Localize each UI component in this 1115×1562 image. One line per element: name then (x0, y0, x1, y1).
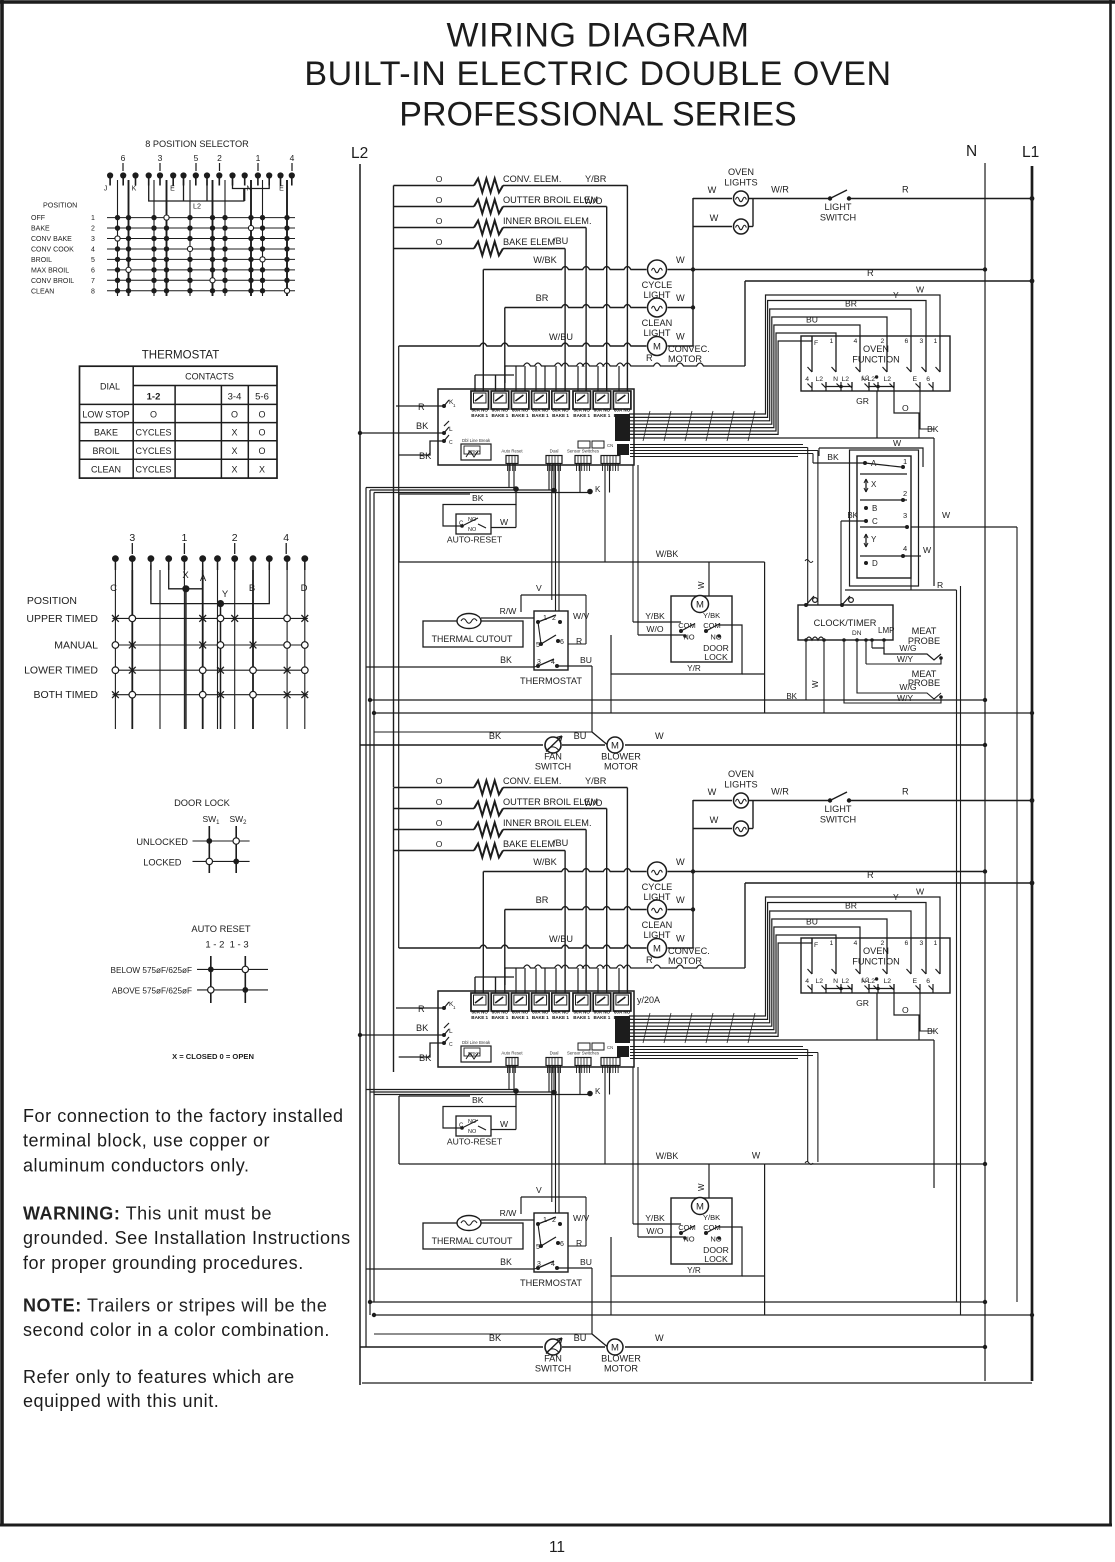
svg-text:LOWER TIMED: LOWER TIMED (24, 665, 98, 677)
svg-text:1: 1 (903, 457, 907, 466)
timer Y bus node (151, 565, 269, 604)
wire W contact box top (819, 448, 923, 467)
thermostat table grid (80, 366, 278, 478)
svg-text:8: 8 (91, 288, 95, 295)
svg-text:LMP: LMP (878, 626, 894, 635)
page border frame bottom (0, 1524, 1112, 1527)
svg-text:1: 1 (181, 532, 187, 544)
svg-text:4: 4 (91, 247, 95, 254)
svg-text:aluminum conductors only.: aluminum conductors only. (23, 1156, 250, 1176)
svg-text:DIAL: DIAL (100, 382, 120, 392)
svg-text:y/20A: y/20A (637, 995, 660, 1005)
selector terminal dots row (107, 172, 295, 185)
selector column wires (118, 180, 288, 296)
svg-text:N: N (966, 143, 977, 160)
svg-text:3: 3 (158, 153, 163, 163)
wire clock lamp feeds (856, 640, 858, 658)
wire W door lock return lower (765, 1163, 985, 1165)
svg-text:1 - 2 1 - 3: 1 - 2 1 - 3 (205, 940, 248, 951)
svg-text:MAX BROIL: MAX BROIL (31, 267, 69, 274)
contact B (864, 506, 868, 510)
bottom boundary wire (362, 1382, 1032, 1384)
svg-text:W: W (942, 510, 951, 520)
svg-text:AUTO RESET: AUTO RESET (191, 924, 251, 934)
selector terminal letters (104, 186, 284, 193)
svg-text:BROIL: BROIL (92, 446, 119, 456)
svg-text:POSITION: POSITION (43, 201, 77, 210)
timer column wires (115, 570, 304, 729)
svg-text:BK: BK (847, 511, 858, 520)
svg-text:6: 6 (91, 267, 95, 274)
wire left riser bundle (365, 488, 367, 1348)
page border frame left (0, 0, 4, 1526)
svg-text:CYCLES: CYCLES (135, 446, 171, 456)
svg-text:B: B (872, 504, 877, 513)
selector L2 bus (149, 180, 244, 201)
wire L2 rail (359, 164, 361, 1385)
note paragraph WARNING (23, 1204, 351, 1273)
svg-text:BK: BK (786, 692, 797, 701)
auto reset switch columns (210, 956, 212, 1003)
svg-text:for proper grounding procedure: for proper grounding procedures. (23, 1253, 304, 1273)
wire L1 rail (1031, 166, 1034, 1381)
svg-text:grounded. See Installation In: grounded. See Installation Instructions (23, 1228, 351, 1248)
svg-text:X: X (182, 570, 189, 581)
svg-text:CLEAN: CLEAN (31, 288, 54, 295)
svg-text:D: D (301, 583, 308, 594)
svg-text:W/Y: W/Y (897, 654, 913, 664)
wire bundle to clock timer (807, 560, 809, 605)
wire right risers to lower section (956, 590, 958, 1302)
svg-text:2: 2 (91, 226, 95, 233)
svg-text:CONV COOK: CONV COOK (31, 247, 74, 254)
svg-text:CYCLES: CYCLES (135, 464, 171, 474)
svg-text:MANUAL: MANUAL (54, 640, 98, 652)
svg-text:CYCLES: CYCLES (135, 428, 171, 438)
contact A (863, 461, 867, 465)
svg-text:O: O (258, 410, 265, 420)
contact C (864, 519, 868, 523)
contact Y coil (865, 534, 867, 547)
timer row wires with X/O marks (24, 613, 308, 701)
svg-text:O: O (231, 410, 238, 420)
svg-text:BAKE: BAKE (94, 428, 118, 438)
timer selector terminal numbers (129, 532, 289, 554)
svg-text:X: X (231, 446, 237, 456)
door lock switch columns (208, 826, 210, 873)
svg-text:BAKE: BAKE (31, 226, 50, 233)
svg-text:CONTACTS: CONTACTS (185, 372, 234, 382)
svg-text:WIRING DIAGRAM: WIRING DIAGRAM (446, 17, 749, 55)
svg-text:X: X (231, 464, 237, 474)
svg-text:UPPER TIMED: UPPER TIMED (26, 613, 98, 625)
wire clock W down (823, 640, 825, 713)
page border frame right (1109, 0, 1112, 1526)
svg-text:UNLOCKED: UNLOCKED (136, 837, 188, 847)
svg-text:W: W (893, 438, 902, 448)
timer X bus node (169, 565, 203, 589)
svg-text:4: 4 (290, 153, 295, 163)
thermostat table text (82, 372, 269, 475)
svg-text:X = CLOSED 0 = OPEN: X = CLOSED 0 = OPEN (172, 1052, 254, 1061)
svg-text:POSITION: POSITION (27, 595, 77, 607)
svg-text:J: J (104, 186, 108, 193)
svg-text:BROIL: BROIL (31, 257, 52, 264)
svg-text:LOCKED: LOCKED (143, 858, 182, 868)
svg-text:WARNING: This unit must be: WARNING: This unit must be (23, 1204, 272, 1224)
svg-text:L1: L1 (1022, 144, 1039, 161)
clock timer coil (806, 637, 824, 640)
svg-text:1: 1 (91, 215, 95, 222)
svg-text:MEAT: MEAT (912, 626, 937, 636)
svg-text:5: 5 (194, 153, 199, 163)
svg-text:R: R (937, 580, 943, 590)
svg-text:8 POSITION SELECTOR: 8 POSITION SELECTOR (145, 139, 249, 149)
svg-text:Y: Y (871, 535, 877, 544)
svg-text:X: X (231, 428, 237, 438)
clock timer bottom terminals (842, 638, 846, 642)
timer selector terminal dots (112, 555, 308, 570)
wire outer box left spanning (398, 346, 400, 948)
svg-text:CONV BAKE: CONV BAKE (31, 236, 72, 243)
svg-text:ABOVE 575øF/625øF: ABOVE 575øF/625øF (112, 987, 192, 996)
clock timer top switches (804, 603, 808, 607)
wire R contact box down (845, 589, 957, 591)
svg-text:3: 3 (129, 532, 135, 544)
svg-text:BUILT-IN ELECTRIC DOUBLE OVEN: BUILT-IN ELECTRIC DOUBLE OVEN (304, 55, 891, 93)
upper oven section (358, 167, 1035, 772)
svg-text:2: 2 (232, 532, 238, 544)
svg-text:D: D (872, 559, 878, 568)
contact box A-D (850, 450, 919, 586)
note paragraph refer (23, 1367, 295, 1411)
svg-text:4: 4 (283, 532, 289, 544)
svg-text:Refer only to features which a: Refer only to features which are (23, 1367, 295, 1387)
svg-text:L2: L2 (193, 202, 201, 211)
svg-text:LOW STOP: LOW STOP (82, 410, 129, 420)
selector N bracket (233, 180, 270, 189)
svg-text:CLOCK/TIMER: CLOCK/TIMER (814, 618, 877, 628)
svg-text:4: 4 (903, 544, 907, 553)
note paragraph NOTE (23, 1296, 330, 1341)
svg-text:BK: BK (827, 452, 839, 462)
svg-text:CLEAN: CLEAN (91, 464, 121, 474)
svg-text:THERMOSTAT: THERMOSTAT (142, 350, 220, 362)
svg-text:BOTH TIMED: BOTH TIMED (33, 689, 98, 701)
svg-text:3-4: 3-4 (228, 392, 242, 403)
svg-text:C: C (110, 583, 117, 594)
svg-text:Y: Y (222, 589, 229, 600)
svg-text:OFF: OFF (31, 215, 45, 222)
svg-text:7: 7 (91, 278, 95, 285)
svg-text:5: 5 (91, 257, 95, 264)
wire BK to contact A (813, 462, 865, 464)
svg-text:W/Y: W/Y (897, 693, 913, 703)
clock timer box (798, 605, 893, 640)
svg-text:O: O (258, 428, 265, 438)
svg-text:C: C (872, 517, 878, 526)
lower oven section (duplicate of upper) (358, 769, 1035, 1374)
wire W riser right (1016, 527, 1018, 1302)
svg-text:CONV BROIL: CONV BROIL (31, 278, 74, 285)
svg-text:3: 3 (903, 511, 907, 520)
svg-text:W: W (923, 545, 932, 555)
contact D (864, 561, 868, 565)
svg-text:1-2: 1-2 (147, 392, 161, 403)
svg-text:W: W (752, 1151, 761, 1161)
note paragraph 1 (23, 1106, 344, 1176)
svg-text:11: 11 (549, 1539, 565, 1556)
contact X coil (865, 479, 867, 492)
svg-text:W/G: W/G (899, 682, 916, 692)
svg-text:For connection to the factory: For connection to the factory installed (23, 1106, 344, 1126)
svg-text:1: 1 (256, 153, 261, 163)
svg-text:BELOW 575øF/625øF: BELOW 575øF/625øF (111, 966, 192, 975)
svg-text:second color in a color combin: second color in a color combination. (23, 1320, 330, 1340)
svg-text:equipped with this unit.: equipped with this unit. (23, 1391, 219, 1411)
svg-text:terminal block, use copper or: terminal block, use copper or (23, 1131, 270, 1151)
svg-text:X: X (259, 464, 265, 474)
svg-text:2: 2 (217, 153, 222, 163)
svg-text:PROFESSIONAL SERIES: PROFESSIONAL SERIES (399, 96, 796, 134)
svg-text:B: B (249, 583, 255, 594)
svg-text:DOOR LOCK: DOOR LOCK (174, 798, 231, 808)
wire clock BK down (805, 640, 807, 700)
selector row wires and contact dots (31, 215, 295, 295)
svg-text:W: W (811, 680, 820, 688)
svg-text:E: E (170, 186, 175, 193)
svg-text:L2: L2 (351, 145, 368, 162)
svg-text:E: E (279, 186, 284, 193)
selector terminal numbers (121, 153, 295, 171)
svg-text:X: X (871, 480, 877, 489)
svg-text:NOTE: Trailers or stripes wil: NOTE: Trailers or stripes will be the (23, 1296, 327, 1316)
svg-text:DN: DN (852, 630, 862, 637)
svg-text:W/G: W/G (899, 643, 916, 653)
svg-text:3: 3 (91, 236, 95, 243)
wire element bus spanning (393, 470, 395, 787)
svg-text:2: 2 (903, 489, 907, 498)
page border frame top (0, 0, 1115, 4)
svg-text:5-6: 5-6 (255, 392, 269, 403)
svg-text:O: O (258, 446, 265, 456)
svg-text:O: O (150, 410, 157, 420)
wire N rail (984, 163, 986, 1381)
timer selector letters (110, 570, 308, 600)
svg-text:K: K (132, 186, 137, 193)
wire W contact 3 out (911, 526, 1017, 528)
svg-text:6: 6 (121, 153, 126, 163)
